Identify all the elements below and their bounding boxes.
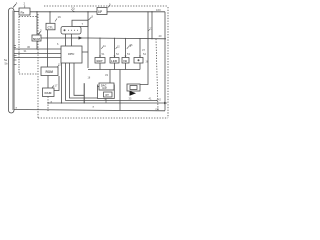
RAM box [43,88,55,97]
junction x157 y100 [156,100,157,101]
arrow into B1 [99,56,101,58]
box B2 [110,58,119,64]
long wire x120 down [119,70,121,111]
svg-text:EEP: EEP [97,59,103,63]
right vertical x152 [151,12,153,39]
junction x120 y103 [119,102,120,103]
bottom wire 1 [48,102,166,104]
junction cpu wire1 [61,102,62,103]
dashed partition left vertical x19 [18,17,20,75]
wire numeral 31 lead [101,46,103,48]
junction feed B3 [125,38,126,39]
dashed partition vertical x38 [37,14,39,118]
svg-text:RAM: RAM [45,91,52,95]
stub B1 bottom [99,63,101,70]
feed wire box B2 [114,38,116,58]
svg-text:5b: 5b [5,61,9,65]
svg-text:Rx: Rx [21,11,25,15]
wire bus to box 16 [49,12,51,24]
svg-text:XT: XT [105,93,109,97]
RF box 2 [19,8,30,15]
wire NUM down [36,41,38,49]
stadium tick 5 [14,47,17,49]
wire ROM to RAM [47,76,49,89]
B4 dot [138,59,140,61]
numeral 2 lead [24,5,26,8]
svg-text:NUM: NUM [33,37,40,41]
osc left stub [98,86,100,88]
black arrow [130,91,137,96]
svg-text:160: 160 [156,8,161,12]
dashed enclosure right edge [167,7,169,118]
wire numeral 34 lead [127,46,129,48]
box B1 [95,58,105,64]
stadium tick 2 [14,59,17,61]
svg-text:I/F: I/F [98,10,102,14]
cpu bottom wire 4 [74,63,84,95]
wire RAM right loop [54,76,59,91]
feed wire box B4 [139,39,141,58]
junction x152 [151,11,152,12]
under-box bus y69.5 [88,69,140,71]
crystal box [104,92,113,97]
junction x84 y103 [84,102,85,103]
left input wire 3 [14,57,61,59]
junction feed B1 [99,38,100,39]
bottom wire 2 [14,110,165,111]
vertical chain wire x47 [47,30,49,68]
wire numeral 32 lead [116,47,118,49]
arrow into B2 [114,56,116,58]
junction x37 [36,11,37,12]
top bus wire [14,11,19,13]
DAR box [99,83,114,90]
speaker feed wire [140,12,148,85]
junction x50 [49,11,50,12]
junction feed B2 [114,38,115,39]
dashed partition horizontal y74 [19,73,38,75]
NUM box [32,35,41,41]
stadium tick 1 [14,55,17,57]
numeral 21 lead [148,29,150,31]
junction x88 y38 [87,37,88,38]
wire NUM to right [41,37,88,39]
osc left wire [98,85,115,99]
speaker inner box [130,86,137,90]
wire y69.5 down to DAR [109,70,111,84]
thick vertical x84 [83,83,85,103]
svg-text:AMP: AMP [102,87,107,90]
stub B3 bottom [125,63,127,70]
key dot large [64,29,66,31]
svg-text:ROM: ROM [46,70,54,74]
cpu bottom wire 3 [70,63,98,98]
junction NUM wire y49 [36,48,37,49]
antenna rod (stadium) [9,8,15,113]
left input wire 2 [14,53,61,55]
left input wire 1 [14,48,61,50]
cpu bottom wire 1 [61,63,63,103]
right dashed vertical x157 [156,39,158,110]
CPU box [61,46,82,63]
antenna lead tick [13,4,16,8]
numeral 3 lead [39,32,41,35]
svg-text:(4): (4) [156,107,159,111]
wire bus to NUM [36,12,38,35]
dashed partition horizontal y16.5 [19,16,38,18]
feed wire box B3 [125,38,127,58]
svg-text:LED: LED [111,59,118,63]
arrow on NUM wire [79,36,83,39]
box B3 [122,58,129,64]
arrow into B3 [125,56,127,58]
junction RAM dash y103 [47,102,48,103]
peripheral wire y38 [88,37,166,40]
junction x152 on y38 [151,38,152,39]
dashed enclosure top edge [44,5,167,7]
cpu bottom wire 2 [66,63,158,100]
ROM box [41,67,58,76]
osc right stub [113,86,115,88]
svg-text:16: 16 [58,15,62,19]
stub B2 bottom [114,63,116,70]
svg-text:DAC: DAC [101,84,107,87]
svg-text:VB: VB [123,59,127,63]
key row rounded box [61,27,81,35]
junction speaker feed y38.8 [147,38,148,39]
box 16 [46,23,55,30]
junction feed B4 [139,38,140,39]
antenna rod inner edge [12,11,14,111]
key dot 4 [74,30,75,31]
arrow into B4 [139,56,141,58]
junction speaker feed bus [147,11,148,12]
svg-text:CPU: CPU [68,52,74,56]
wire keys to cpu left [65,34,67,46]
svg-text:20: 20 [71,7,75,11]
junction on NUM wire [46,37,47,38]
numeral 8 lead [89,17,92,20]
numeral 9 lead [108,5,110,7]
osc bottom stub [105,99,107,104]
speaker outer box [127,84,140,91]
junction x88 [87,11,88,12]
numeral 15 lead [57,65,59,67]
arrow bottom wire [164,102,168,105]
display strip box [72,20,88,26]
stadium tick 3 [14,64,17,66]
key dot 3 [71,30,72,31]
wire keys to cpu right [71,34,73,46]
long vertical wire x88 [87,12,89,68]
cpu right stub [82,51,88,53]
numeral 16 lead [55,19,57,22]
key dot 5 [77,30,78,31]
RAM numeral lead [52,86,54,88]
feed wire box B1 [99,38,101,58]
stadium tick 4 [14,44,17,46]
box B4 [134,58,143,64]
dashed enclosure bottom edge [38,117,168,119]
top mid box on bus [97,8,107,15]
bus line [30,11,165,13]
stub B4 bottom [139,63,141,70]
numeral 20 lead [72,11,75,12]
key dot 2 [68,30,69,31]
svg-text:30: 30 [27,45,31,49]
dashed wire below RAM [47,97,49,112]
svg-text:CTL: CTL [48,26,54,30]
right vertical x165 [164,12,166,111]
